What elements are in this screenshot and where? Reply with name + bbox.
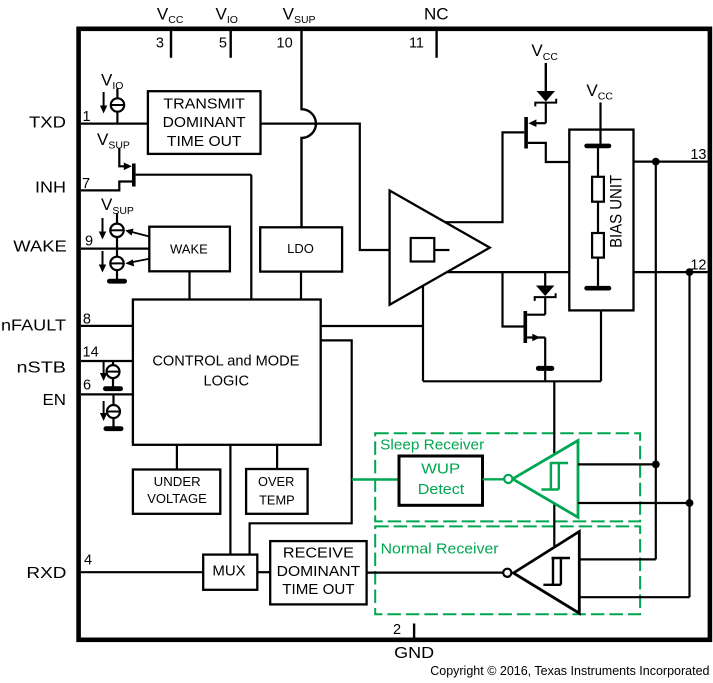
wire control to under voltage	[176, 445, 178, 470]
svg-text:TIME OUT: TIME OUT	[167, 133, 242, 150]
ground for I5	[104, 426, 124, 431]
svg-text:Copyright © 2016, Texas Instru: Copyright © 2016, Texas Instruments Inco…	[430, 664, 709, 678]
sleep receiver amplifier (green)	[513, 441, 578, 518]
pin 5 VIO tick	[229, 31, 231, 58]
diode D1 zener	[535, 91, 556, 123]
current source I3 WAKE lower	[99, 237, 124, 273]
svg-text:VIO: VIO	[101, 71, 123, 93]
svg-text:10: 10	[277, 36, 293, 52]
wire sleep upper output	[578, 463, 656, 465]
pin 7 INH wire	[81, 182, 133, 191]
diode D2 zener on CANL	[535, 272, 556, 315]
svg-text:VSUP: VSUP	[97, 130, 130, 152]
transistor Q1 PMOS high side	[524, 117, 569, 162]
block LDO	[260, 227, 342, 271]
wire pin12 vertical to receivers	[688, 272, 690, 597]
svg-text:MUX: MUX	[212, 562, 245, 579]
junction dot sleep upper output	[652, 461, 660, 469]
svg-text:DOMINANT: DOMINANT	[163, 114, 246, 131]
junction dot sleep lower output	[686, 499, 694, 507]
svg-text:WAKE: WAKE	[170, 241, 208, 256]
wire INH drain down to control logic	[250, 175, 252, 300]
current source I2 WAKE upper	[99, 213, 124, 240]
svg-text:VCC: VCC	[531, 41, 558, 63]
svg-text:Sleep Receiver: Sleep Receiver	[380, 436, 484, 453]
svg-text:EN: EN	[43, 392, 67, 409]
svg-text:WAKE: WAKE	[13, 239, 67, 256]
block UNDER VOLTAGE	[133, 470, 220, 514]
outer device boundary box	[79, 29, 710, 640]
svg-text:2: 2	[393, 622, 401, 638]
wire pin13 vertical to receivers	[655, 162, 657, 560]
current source I5 on EN	[100, 394, 120, 426]
wire control to mux select	[250, 340, 352, 554]
pin 3 VCC tick	[170, 31, 172, 58]
wire normal lower output	[579, 596, 689, 598]
wire control to over temp	[276, 445, 278, 469]
arrow from WAKE block to I2	[125, 229, 149, 237]
wire R1 to R2	[597, 202, 599, 233]
block WAKE	[149, 227, 230, 272]
sleep receiver output bubble	[504, 475, 512, 483]
wire normal upper output	[579, 558, 656, 560]
net VSUP vertical with hop over TXD wire	[302, 31, 316, 227]
block MUX	[203, 555, 257, 590]
svg-text:3: 3	[156, 36, 164, 52]
svg-text:GND: GND	[394, 645, 434, 662]
transistor Q3 INH high-side switch	[119, 148, 251, 187]
normal receiver hysteresis glyph	[543, 558, 570, 585]
svg-text:14: 14	[83, 344, 99, 360]
junction dot pin13	[652, 158, 660, 166]
current source I4 on nSTB	[100, 361, 120, 387]
sleep receiver dashed enclosure	[375, 433, 640, 521]
wire control to CAN bus low rail	[321, 286, 423, 382]
wire TDTO output to driver input	[261, 124, 411, 250]
ground bar for Q2	[536, 366, 554, 371]
svg-text:NC: NC	[424, 4, 449, 23]
block TRANSMIT DOMINANT TIME OUT	[148, 91, 261, 154]
svg-text:13: 13	[690, 147, 706, 163]
bias rail bar top	[584, 144, 611, 149]
svg-text:nSTB: nSTB	[17, 360, 67, 377]
svg-text:CONTROL and MODE: CONTROL and MODE	[152, 352, 299, 369]
wire R2 to bottom bar	[597, 258, 599, 286]
wire VCC into bias unit	[599, 103, 601, 144]
svg-text:TEMP: TEMP	[259, 492, 295, 507]
svg-text:DOMINANT: DOMINANT	[277, 563, 361, 580]
ground for WAKE bias	[116, 270, 118, 279]
driver amplifier U1	[390, 191, 490, 305]
pin 13 wire	[634, 161, 708, 163]
wire bias unit bottom to low rail	[600, 310, 602, 381]
transistor Q2 NMOS low side	[524, 311, 546, 366]
svg-text:TIME OUT: TIME OUT	[282, 581, 354, 598]
svg-text:TRANSMIT: TRANSMIT	[163, 95, 245, 112]
svg-text:LDO: LDO	[287, 241, 314, 256]
svg-text:OVER: OVER	[258, 474, 294, 489]
wire RDTO to normal receiver bubble	[367, 571, 503, 573]
svg-text:RXD: RXD	[26, 565, 66, 582]
current source I1 on TXD	[100, 89, 124, 124]
svg-text:5: 5	[219, 36, 227, 52]
svg-text:VCC: VCC	[586, 81, 613, 103]
pin 11 NC tick	[435, 31, 437, 58]
svg-text:7: 7	[82, 176, 90, 192]
wire low side rail horizontal	[423, 380, 601, 382]
sleep receiver hysteresis glyph	[541, 463, 568, 490]
svg-text:Detect: Detect	[418, 481, 465, 498]
block RECEIVE DOMINANT TIME OUT	[270, 541, 366, 604]
pin 6 EN wire	[81, 393, 133, 395]
wire control to MUX	[229, 445, 231, 555]
bias rail bar bottom	[584, 286, 611, 291]
junction dot pin12	[686, 268, 694, 276]
pin 9 WAKE wire	[81, 248, 149, 250]
svg-text:LOGIC: LOGIC	[204, 373, 250, 390]
wire sleep lower output	[578, 502, 690, 504]
block WUP Detect	[399, 456, 483, 505]
svg-text:4: 4	[84, 553, 92, 569]
normal receiver amplifier	[513, 532, 579, 614]
pin 4 RXD wire	[81, 571, 203, 573]
svg-text:nFAULT: nFAULT	[1, 318, 66, 335]
svg-text:Normal Receiver: Normal Receiver	[381, 541, 499, 558]
wire receiver input tap	[553, 381, 555, 546]
block CONTROL and MODE LOGIC	[133, 300, 321, 445]
svg-text:11: 11	[409, 36, 424, 52]
wire MUX to RDTO	[257, 571, 270, 573]
svg-text:VSUP: VSUP	[283, 4, 316, 26]
pin 8 nFAULT wire	[81, 325, 133, 327]
slew control symbol inside driver	[411, 238, 435, 262]
block OVER TEMP	[246, 469, 308, 514]
wire VCC to diode D1	[545, 63, 547, 91]
resistor R1	[592, 177, 604, 202]
arrow from WAKE block to I3	[125, 259, 149, 267]
normal receiver input bubble	[503, 569, 511, 577]
wire bar to R1	[597, 148, 599, 177]
svg-text:TXD: TXD	[29, 114, 66, 131]
normal receiver dashed enclosure	[375, 526, 640, 614]
block BIAS UNIT	[569, 130, 633, 311]
svg-text:UNDER: UNDER	[154, 474, 201, 489]
svg-text:1: 1	[83, 109, 91, 125]
svg-text:BIAS UNIT: BIAS UNIT	[607, 175, 625, 248]
wire green control to WUP detect	[352, 478, 399, 480]
wire driver upper output to PMOS gate	[445, 132, 524, 222]
svg-text:WUP: WUP	[421, 461, 460, 478]
svg-text:6: 6	[83, 378, 91, 394]
pin 2 GND tick	[413, 624, 415, 640]
pin 12 wire	[634, 271, 708, 273]
wire WUP detect to sleep bubble	[483, 478, 505, 480]
svg-text:VOLTAGE: VOLTAGE	[147, 491, 207, 506]
svg-text:VCC: VCC	[157, 4, 184, 26]
svg-text:INH: INH	[35, 180, 66, 197]
resistor R2	[592, 233, 604, 258]
svg-text:8: 8	[83, 312, 91, 328]
pin 14 nSTB wire	[81, 360, 133, 362]
svg-text:VIO: VIO	[216, 4, 238, 26]
wire WAKE block to control logic	[188, 271, 190, 299]
pin 1 TXD wire	[81, 122, 148, 124]
ground for I4	[103, 386, 123, 391]
wire NMOS gate tap	[503, 272, 524, 326]
svg-text:9: 9	[85, 234, 93, 250]
wire LDO to control logic	[300, 272, 302, 300]
svg-text:RECEIVE: RECEIVE	[283, 545, 354, 562]
wire CANL rail driver lower output to bias unit	[447, 271, 569, 273]
